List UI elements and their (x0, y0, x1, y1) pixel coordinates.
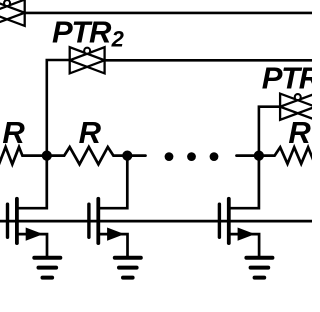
wire: stub left of node C (237, 154, 259, 157)
wire: top rail from PTR1 to right edge (25, 12, 312, 15)
ellipsis dots (continuation) (165, 152, 219, 161)
wire: stub right of node B (127, 154, 145, 157)
M3 gate bar (218, 204, 221, 237)
MOS capacitor M1 (8, 156, 48, 257)
MOS capacitor M2 (89, 156, 128, 257)
wire: PTR2 right terminal to right edge (105, 59, 312, 62)
svg-text:R: R (79, 115, 102, 150)
label PTR2 (52, 14, 125, 51)
node A junction dot (42, 151, 52, 161)
wire: from node A up and over to PTR2 left terminal (47, 60, 70, 156)
node B junction dot (122, 151, 132, 161)
M3 source wire with arrow to ground (229, 234, 259, 257)
svg-text:PTR: PTR (52, 14, 112, 49)
M1 source wire with arrow to ground (17, 234, 47, 257)
svg-text:PTR: PTR (262, 61, 312, 96)
M1 drain wire to node A (17, 156, 47, 209)
M2 source wire with arrow to ground (98, 234, 127, 257)
wire: from node C up and over to PTR3 left terminal (259, 107, 280, 156)
transistor PTR1 (pass-transistor, clipped at top-left corner) (0, 0, 25, 26)
M1 channel bar (15, 199, 19, 243)
M2 channel bar (96, 199, 100, 243)
MOS capacitor M3 (219, 156, 259, 257)
node C junction dot (254, 151, 264, 161)
M2 gate bar (87, 204, 90, 237)
M1 gate bar (6, 204, 9, 237)
ground (M2 source) (115, 258, 141, 278)
resistor R3 (zigzag, clipped at right edge) (259, 147, 315, 164)
resistor R1 (zigzag, clipped at left edge) (0, 147, 47, 164)
M3 channel bar (227, 199, 231, 243)
svg-text:2: 2 (111, 26, 125, 51)
transistor PTR2 (pass-transistor symbol) (70, 47, 105, 73)
ground (M1 source) (34, 258, 60, 278)
bottom bus wire (full width) (0, 220, 312, 223)
transistor PTR3 (pass-transistor symbol, clipped at right) (280, 94, 315, 120)
resistor R2 (zigzag between node A and node B) (47, 147, 128, 164)
M3 drain wire to node C (229, 156, 259, 209)
ground (M3 source) (246, 258, 272, 278)
M2 drain wire to node B (98, 156, 127, 209)
